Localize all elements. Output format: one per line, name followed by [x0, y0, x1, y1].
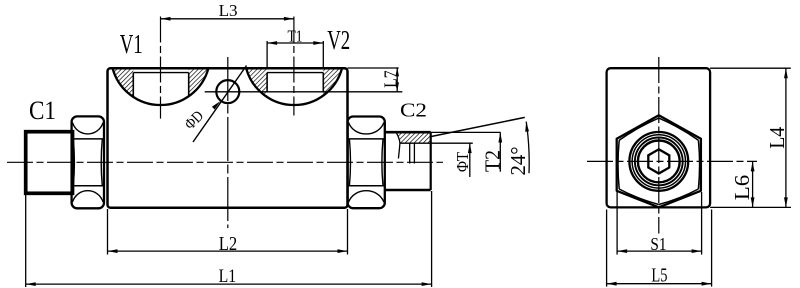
- T1 left extension: [266, 41, 268, 67]
- fitting circle 3: [635, 138, 683, 186]
- port V1 right hatch wedge: [189, 68, 209, 96]
- fitting outer circle: [629, 132, 688, 191]
- fitting inner circle: [638, 141, 680, 183]
- port V1 left wall: [132, 73, 134, 97]
- stud C2 thread runout curve: [397, 133, 400, 158]
- hex nut C1 lower flat line: [72, 185, 104, 187]
- svg-text:C1: C1: [29, 96, 56, 125]
- dimension L4 top arrow: [784, 68, 788, 78]
- main horizontal centerline: [7, 161, 443, 163]
- side horizontal centerline: [587, 160, 757, 162]
- stud C2 thread minor line: [400, 142, 473, 144]
- hex chamfer arc 5: [618, 140, 619, 189]
- dimension S1 line: [617, 250, 702, 252]
- hex nut C2 lower flat line: [348, 185, 385, 187]
- svg-text:L6: L6: [730, 175, 754, 201]
- svg-text:L3: L3: [219, 1, 238, 20]
- angle 24 arrow: [525, 122, 529, 132]
- dimension L6 top arrow: [751, 161, 755, 171]
- dimension T1 right arrow: [313, 41, 323, 45]
- plug C1 body (thick rect): [26, 132, 73, 194]
- dimension L3 left arrow: [161, 17, 171, 21]
- hex chamfer arc 3: [659, 189, 699, 205]
- dimension L7 bottom arrow: [395, 82, 399, 91]
- port V2 left wall: [266, 73, 268, 92]
- block top edge extended: [710, 67, 791, 69]
- hex nut C2 upper flat line: [348, 138, 385, 140]
- port V2 right wall: [322, 73, 324, 92]
- hex chamfer arc 6: [619, 118, 659, 140]
- dimension T arrow: [468, 143, 472, 153]
- orifice circle D: [216, 80, 239, 103]
- dimension L3 right arrow: [284, 17, 294, 21]
- dimension T1 left arrow: [267, 41, 277, 45]
- port V2 left hatch wedge: [246, 68, 267, 97]
- angle 24 arc: [526, 122, 529, 174]
- svg-text:V2: V2: [327, 25, 350, 55]
- svg-text:ΦT: ΦT: [453, 152, 472, 172]
- cone angle line: [431, 117, 525, 136]
- T2 extension line: [431, 131, 501, 133]
- dimension L6 line: [752, 161, 754, 207]
- stud C2 bottom edge: [385, 189, 431, 192]
- port V1 countersink arc: [113, 68, 209, 105]
- stud C2 bore line b: [413, 143, 415, 163]
- svg-text:S1: S1: [650, 234, 666, 254]
- dimension L1 line: [26, 283, 432, 285]
- L5 right extension: [711, 210, 713, 287]
- hex socket: [648, 149, 669, 173]
- stud C2 top edge: [385, 131, 431, 134]
- port V1 right wall: [188, 73, 190, 97]
- hex nut C1 bottom face chamfer arc: [72, 191, 103, 202]
- hex nut C1 mid face arcs: [73, 139, 102, 186]
- dimension L4 bottom arrow: [784, 197, 788, 207]
- hex nut outline (end view): [617, 115, 701, 207]
- L2 left extension: [107, 209, 109, 255]
- hex chamfer arc 1: [659, 118, 699, 140]
- hex nut C1 upper flat line: [72, 138, 104, 140]
- hex nut C1 outline: [72, 116, 104, 208]
- port V2 countersink arc: [246, 68, 342, 105]
- stud C2 end edge: [430, 132, 432, 190]
- svg-text:T1: T1: [288, 26, 303, 45]
- V1 centerline: [160, 17, 162, 119]
- dimension L4 line: [785, 68, 787, 207]
- svg-text:C2: C2: [400, 100, 427, 122]
- leader arrowhead: [212, 101, 220, 109]
- dimension L7 top arrow: [395, 67, 399, 76]
- dimension S1 left arrow: [617, 249, 627, 253]
- port V2 thread line: [267, 72, 323, 74]
- body vertical centerline: [227, 57, 229, 228]
- svg-text:24°: 24°: [506, 147, 530, 176]
- L2 right extension: [347, 209, 349, 255]
- side vertical centerline: [658, 57, 660, 234]
- S1 left extension: [616, 192, 618, 255]
- stud C2 thread section hatch: [397, 133, 431, 143]
- dimension L6 bottom arrow: [751, 197, 755, 207]
- dimension S1 right arrow: [692, 249, 702, 253]
- block bottom edge extended: [710, 206, 791, 208]
- dimension T2 arrow: [498, 133, 502, 143]
- dimension T line: [469, 143, 471, 177]
- dimension L1 right arrow: [422, 282, 432, 286]
- leader line for D: [193, 66, 247, 143]
- svg-text:T2: T2: [480, 150, 504, 172]
- svg-text:L7: L7: [380, 70, 400, 88]
- dimension L2 left arrow: [108, 249, 118, 253]
- S1 right extension: [701, 192, 703, 255]
- dimension T1 line: [267, 42, 323, 44]
- svg-text:L5: L5: [651, 265, 667, 286]
- port V1 thread line: [133, 72, 188, 74]
- hex nut C2 top face chamfer arc: [349, 123, 384, 134]
- hex chamfer arc 4: [619, 189, 659, 205]
- hex nut C2 bottom face chamfer arc: [349, 191, 384, 202]
- hex nut C2 mid face arcs: [349, 139, 383, 186]
- valve body (front view): [108, 68, 348, 207]
- L5 left extension: [606, 210, 608, 287]
- dimension L3 line: [161, 18, 294, 20]
- dimension T2 line: [499, 133, 501, 172]
- T1 right extension: [322, 41, 324, 67]
- dimension L5 right arrow: [702, 282, 712, 286]
- svg-text:V1: V1: [120, 29, 143, 59]
- L1 right extension: [431, 191, 433, 287]
- L1 left extension: [25, 195, 27, 287]
- dimension L2 right arrow: [338, 249, 348, 253]
- stud C2 bore line a: [409, 143, 411, 163]
- hex nut C2 outline: [348, 117, 385, 209]
- svg-text:L1: L1: [219, 266, 237, 287]
- dimension L7 line: [396, 67, 398, 91]
- dimension L2 line: [108, 250, 348, 252]
- dimension L5 line: [607, 283, 712, 285]
- port V2 right hatch wedge: [323, 68, 342, 95]
- dimension L1 left arrow: [26, 282, 36, 286]
- hex chamfer arc 2: [698, 140, 699, 189]
- L7 top extension: [348, 67, 399, 69]
- hex nut C1 top face chamfer arc: [72, 123, 103, 134]
- side view block: [607, 68, 711, 207]
- V2 centerline: [293, 17, 295, 116]
- fitting circle 2: [632, 135, 685, 188]
- svg-text:L2: L2: [219, 233, 238, 255]
- port bottom reference line: [205, 91, 403, 93]
- dimension L5 left arrow: [607, 282, 617, 286]
- svg-text:L4: L4: [765, 126, 789, 148]
- port V1 left hatch wedge: [113, 68, 134, 97]
